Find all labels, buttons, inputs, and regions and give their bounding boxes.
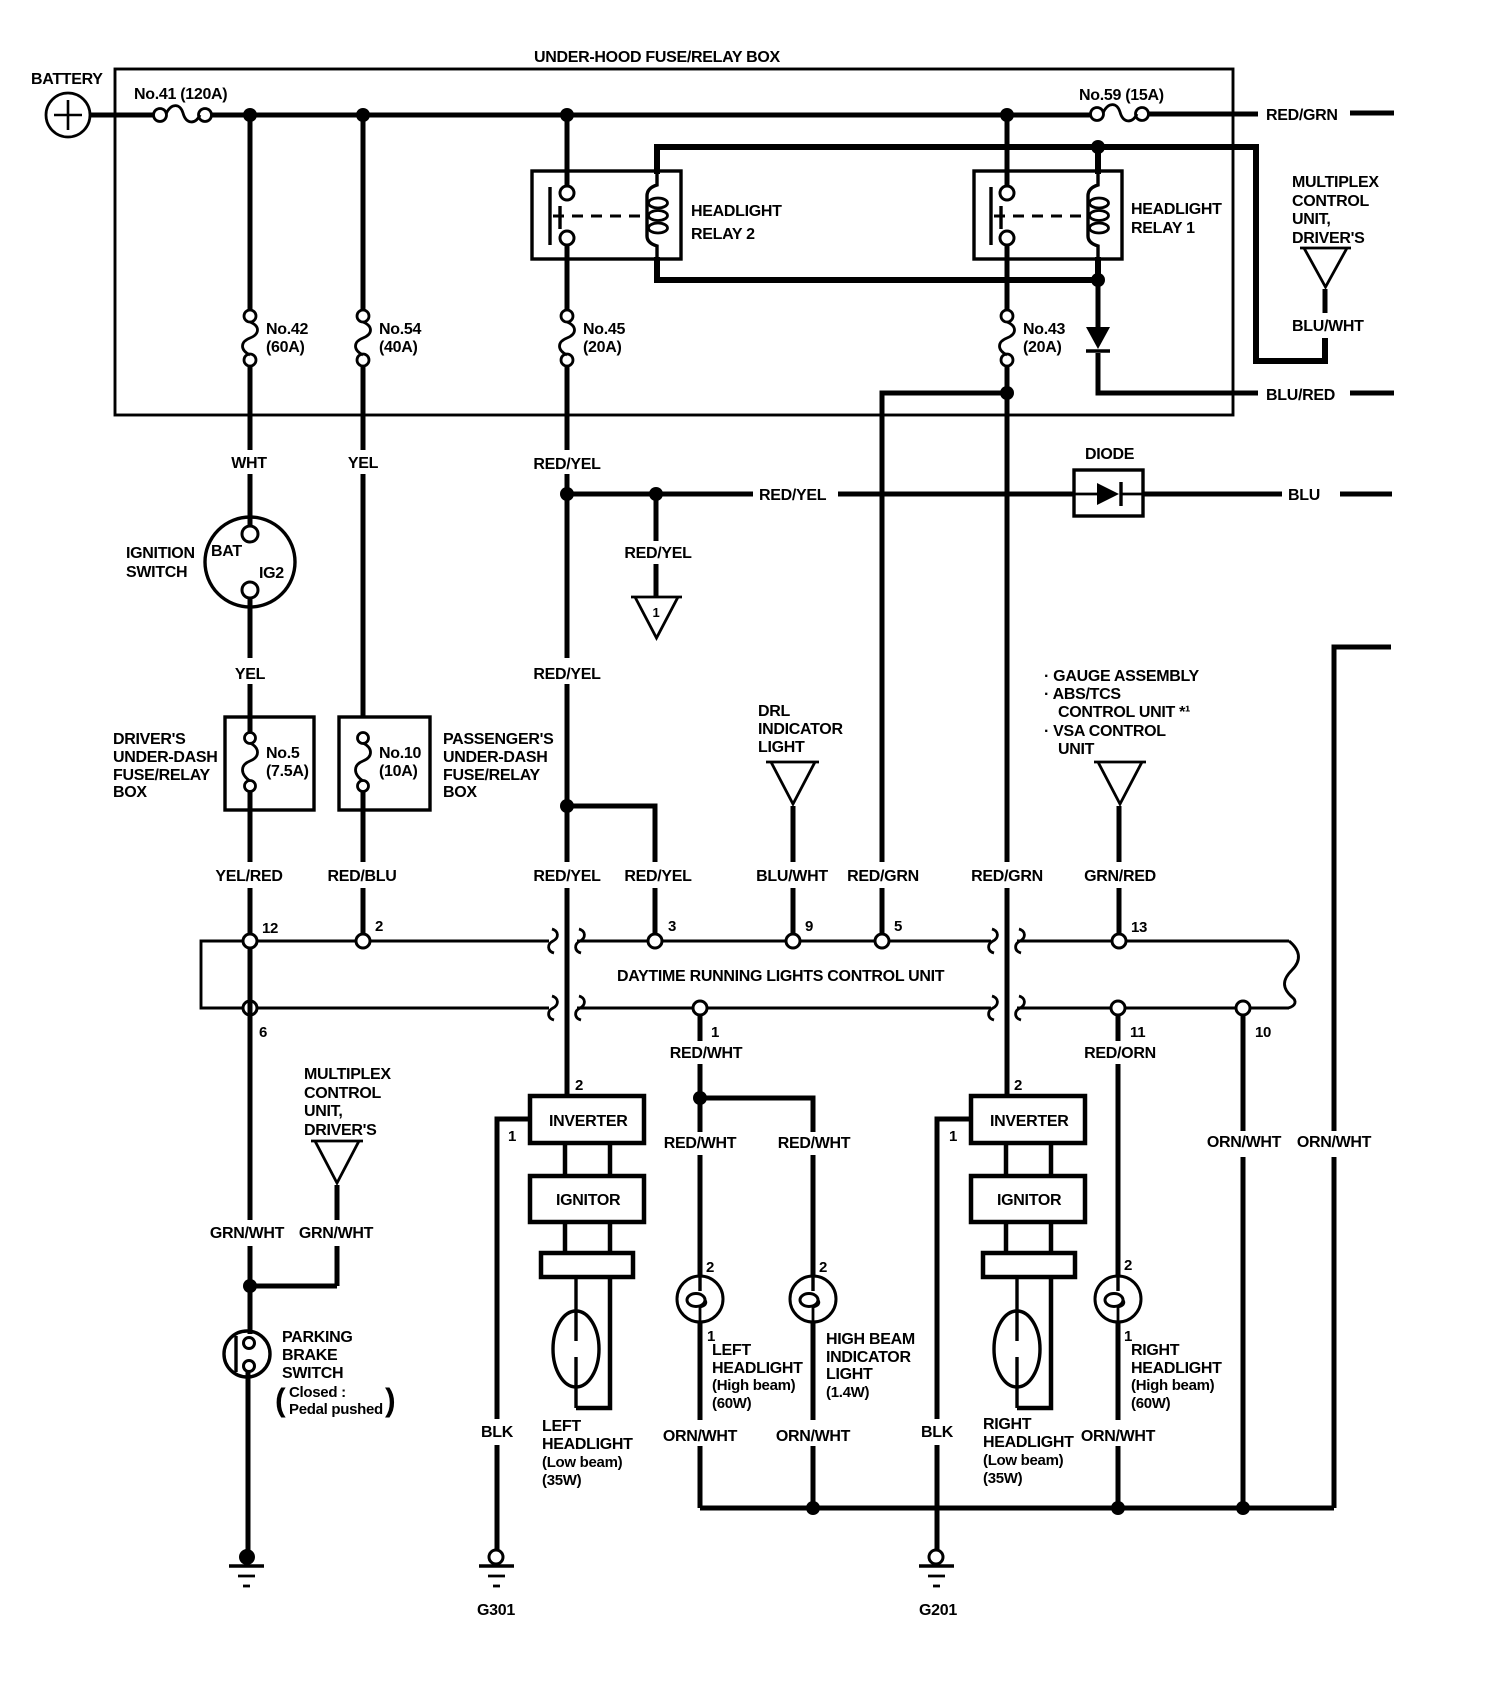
svg-text:(35W): (35W)	[542, 1472, 582, 1489]
svg-text:): )	[385, 1382, 396, 1418]
relay 2 coil	[647, 171, 668, 259]
wire WHT No.42 to ignition switch	[248, 365, 253, 527]
svg-text:YEL: YEL	[235, 666, 266, 683]
svg-text:12: 12	[262, 920, 278, 937]
wire fuse No.59 to RED/GRN	[1148, 112, 1258, 117]
wire junction to relay 1 diode	[1096, 280, 1101, 327]
wire No.43 down through box	[1005, 365, 1010, 862]
fuse No.41 (120A)	[134, 86, 227, 122]
main battery bus wire	[211, 113, 1091, 118]
svg-text:INDICATOR: INDICATOR	[758, 721, 843, 738]
svg-text:YEL/RED: YEL/RED	[215, 868, 282, 885]
wire diode to BLU/RED	[1098, 353, 1258, 393]
node: RED/WHT branch junction	[693, 1091, 707, 1105]
label high beam indicator light	[826, 1331, 915, 1401]
svg-text:No.45: No.45	[583, 321, 625, 338]
node: RED/YEL branch to pin 3	[560, 799, 574, 813]
pin 1	[693, 1001, 707, 1015]
relay 2 contact pin bottom	[560, 231, 574, 245]
break mark top left pair	[549, 929, 585, 953]
wire BLU/RED stub dash	[1350, 391, 1394, 396]
svg-text:(40A): (40A)	[379, 339, 418, 356]
wire branch to RED/GRN pin 5 drop	[882, 393, 1007, 862]
right headlight high beam bulb	[1095, 1257, 1141, 1345]
right headlight low beam bulb	[994, 1277, 1051, 1408]
wire No.42 drop from bus	[248, 115, 253, 311]
svg-text:9: 9	[805, 918, 813, 935]
svg-text:HEADLIGHT: HEADLIGHT	[1131, 201, 1222, 218]
svg-text:RED/WHT: RED/WHT	[664, 1135, 737, 1152]
relay coil bottom bus wire	[657, 257, 1098, 280]
svg-text:SWITCH: SWITCH	[282, 1365, 343, 1382]
svg-text:RED/GRN: RED/GRN	[847, 868, 919, 885]
svg-text:No.59 (15A): No.59 (15A)	[1079, 87, 1164, 104]
label right headlight high beam	[1131, 1342, 1222, 1412]
svg-text:G201: G201	[919, 1602, 957, 1619]
svg-text:2: 2	[375, 918, 383, 935]
wire YEL No.54 to passenger's fuse box	[361, 365, 366, 718]
pin 11	[1111, 1001, 1125, 1015]
bulb socket bar (left)	[541, 1253, 633, 1277]
svg-text:GRN/WHT: GRN/WHT	[299, 1225, 374, 1242]
svg-text:UNIT: UNIT	[1058, 741, 1095, 758]
wire relay 1 coil bottom	[1095, 257, 1101, 280]
fuse No.59 (15A)	[1079, 87, 1164, 121]
svg-text:(High beam): (High beam)	[712, 1377, 796, 1394]
svg-text:BLU/RED: BLU/RED	[1266, 387, 1335, 404]
bulb socket bar (right)	[983, 1253, 1075, 1277]
svg-text:UNDER-DASH: UNDER-DASH	[443, 749, 548, 766]
svg-text:11: 11	[1130, 1024, 1145, 1041]
svg-text:· GAUGE ASSEMBLY: · GAUGE ASSEMBLY	[1044, 668, 1200, 685]
svg-text:DRIVER'S: DRIVER'S	[304, 1122, 377, 1139]
label left headlight high beam	[712, 1342, 803, 1412]
svg-text:BOX: BOX	[113, 784, 147, 801]
svg-text:No.5: No.5	[266, 745, 300, 762]
node: bus to No.54	[356, 108, 370, 122]
svg-text:2: 2	[1014, 1077, 1022, 1094]
svg-text:LIGHT: LIGHT	[758, 739, 805, 756]
svg-text:LIGHT: LIGHT	[826, 1366, 873, 1383]
svg-text:IGNITOR: IGNITOR	[997, 1192, 1062, 1209]
svg-text:1: 1	[508, 1128, 516, 1145]
svg-text:Pedal pushed: Pedal pushed	[289, 1401, 383, 1418]
svg-text:BLK: BLK	[921, 1424, 954, 1441]
svg-text:LEFT: LEFT	[542, 1418, 581, 1435]
svg-text:DAYTIME RUNNING LIGHTS CONTROL: DAYTIME RUNNING LIGHTS CONTROL UNIT	[617, 968, 945, 985]
headlight relay 1 box	[974, 171, 1122, 259]
node: relay 1 coil on top bus	[1091, 140, 1105, 154]
wires inverter to ignitor (left)	[565, 1143, 610, 1176]
wire RED/WHT branch to indicator	[700, 1098, 813, 1132]
svg-text:RED/YEL: RED/YEL	[533, 868, 601, 885]
svg-text:BLK: BLK	[481, 1424, 514, 1441]
relay 2 contact arm	[558, 206, 561, 229]
relay 1 contact pin top	[1000, 186, 1014, 200]
diode (relay 1 branch)	[1086, 327, 1110, 351]
svg-text:RELAY 2: RELAY 2	[691, 226, 755, 243]
svg-text:RED/GRN: RED/GRN	[1266, 107, 1338, 124]
wire parking brake switch to ground	[246, 1371, 251, 1551]
node: bus to headlight relay 1	[1000, 108, 1014, 122]
wire BLU/WHT indicator to pin 9	[791, 806, 796, 935]
svg-text:IGNITION: IGNITION	[126, 545, 195, 562]
wire BLU stub dash	[1340, 492, 1392, 497]
svg-text:CONTROL UNIT *¹: CONTROL UNIT *¹	[1058, 704, 1190, 721]
wire indicator to bus	[811, 1322, 816, 1508]
parking brake switch	[224, 1329, 396, 1418]
svg-text:HEADLIGHT: HEADLIGHT	[691, 203, 782, 220]
svg-text:(10A): (10A)	[379, 763, 418, 780]
under-hood fuse/relay box outline	[115, 69, 1233, 415]
wires inverter to ignitor (right)	[1006, 1143, 1051, 1176]
wire RED/GRN stub dash	[1350, 111, 1394, 116]
relay coil top bus wire	[657, 147, 1325, 361]
relay 2 contact bar	[548, 187, 551, 245]
pin 5	[875, 934, 889, 948]
pin 3	[648, 934, 662, 948]
svg-text:RED/YEL: RED/YEL	[533, 666, 601, 683]
multiplex control unit driver's (top right)	[1292, 174, 1379, 287]
fuse No.45 (20A)	[560, 310, 626, 366]
svg-text:RIGHT: RIGHT	[983, 1416, 1032, 1433]
svg-text:IGNITOR: IGNITOR	[556, 1192, 621, 1209]
svg-text:RELAY 1: RELAY 1	[1131, 220, 1195, 237]
wires ignitor to socket (left)	[565, 1222, 610, 1253]
node: indicator on bus	[806, 1501, 820, 1515]
diode D1 (in-line)	[1074, 446, 1143, 516]
svg-text:INDICATOR: INDICATOR	[826, 1349, 911, 1366]
ground (parking brake)	[229, 1549, 264, 1586]
svg-text:(Low beam): (Low beam)	[542, 1454, 623, 1471]
pin 9	[786, 934, 800, 948]
wire GRN/RED gauge to pin 13	[1117, 806, 1122, 935]
svg-text:BRAKE: BRAKE	[282, 1347, 338, 1364]
svg-text:INVERTER: INVERTER	[990, 1113, 1069, 1130]
svg-text:WHT: WHT	[231, 455, 267, 472]
wire No.54 drop from bus	[361, 115, 366, 311]
daytime running lights control unit box	[201, 941, 1298, 1008]
svg-text:INVERTER: INVERTER	[549, 1113, 628, 1130]
svg-text:FUSE/RELAY: FUSE/RELAY	[443, 767, 541, 784]
relay 2 actuation dashed line	[553, 215, 645, 218]
svg-text:Closed :: Closed :	[289, 1384, 346, 1401]
wire BLK right inverter to G201	[937, 1119, 971, 1551]
svg-text:UNDER-DASH: UNDER-DASH	[113, 749, 218, 766]
svg-text:ORN/WHT: ORN/WHT	[663, 1428, 738, 1445]
wire pin 10 ORN/WHT down	[1241, 1015, 1246, 1508]
label headlight relay 2	[691, 203, 782, 243]
pin 13	[1112, 934, 1126, 948]
ground G201	[919, 1550, 957, 1619]
svg-text:RED/WHT: RED/WHT	[670, 1045, 743, 1062]
wire relay 2 contact to fuse No.45	[565, 245, 570, 311]
node: right high beam on bus	[1111, 1501, 1125, 1515]
wire diode to BLU	[1143, 492, 1282, 497]
svg-text:YEL: YEL	[348, 455, 379, 472]
svg-text:FUSE/RELAY: FUSE/RELAY	[113, 767, 211, 784]
fuse No.43 (20A)	[1000, 310, 1066, 366]
svg-text:DRIVER'S: DRIVER'S	[1292, 230, 1365, 247]
svg-text:RED/WHT: RED/WHT	[778, 1135, 851, 1152]
svg-text:BOX: BOX	[443, 784, 477, 801]
node: No.43 branch junction	[1000, 386, 1014, 400]
wire ORN/WHT from off-page right	[1334, 647, 1391, 1508]
wire GRN/WHT multiplex branch	[250, 1185, 337, 1286]
node: bus to No.42	[243, 108, 257, 122]
svg-text:RIGHT: RIGHT	[1131, 1342, 1180, 1359]
left headlight low beam bulb	[553, 1277, 610, 1408]
svg-text:HEADLIGHT: HEADLIGHT	[983, 1434, 1074, 1451]
svg-text:LEFT: LEFT	[712, 1342, 751, 1359]
svg-text:RED/YEL: RED/YEL	[624, 545, 692, 562]
wire BLU/WHT multiplex to coil bus	[1323, 289, 1328, 313]
relay 1 contact pin bottom	[1000, 231, 1014, 245]
wire YEL/RED No.5 to pin 12	[248, 791, 253, 935]
svg-text:(1.4W): (1.4W)	[826, 1384, 870, 1401]
svg-text:HEADLIGHT: HEADLIGHT	[712, 1360, 803, 1377]
svg-text:(60W): (60W)	[712, 1395, 752, 1412]
svg-text:SWITCH: SWITCH	[126, 564, 187, 581]
svg-text:BAT: BAT	[211, 543, 242, 560]
wire No.45 RED/YEL down	[565, 365, 570, 1097]
wires ignitor to socket (right)	[1006, 1222, 1051, 1253]
bottom ground bus wire	[700, 1506, 1334, 1511]
svg-text:CONTROL: CONTROL	[304, 1085, 382, 1102]
inverter (left)	[530, 1096, 644, 1143]
svg-text:ORN/WHT: ORN/WHT	[1081, 1428, 1156, 1445]
svg-text:No.10: No.10	[379, 745, 421, 762]
wire pin 11 RED/ORN down	[1116, 1015, 1121, 1277]
relay 1 contact bar	[989, 187, 992, 245]
fuse No.42 (60A)	[243, 310, 309, 366]
svg-text:UNIT,: UNIT,	[304, 1103, 343, 1120]
connector arrow 1	[631, 597, 682, 638]
DRL indicator light	[758, 703, 843, 804]
wire battery to fuse No.41	[90, 113, 154, 118]
ignitor (right)	[971, 1176, 1085, 1222]
inverter (right)	[971, 1096, 1085, 1143]
wire left high beam to bus	[698, 1322, 703, 1508]
wire RED/GRN through control unit gap	[1005, 888, 1010, 1097]
svg-text:HIGH BEAM: HIGH BEAM	[826, 1331, 915, 1348]
wire indicator leg down	[811, 1155, 816, 1277]
svg-text:2: 2	[1124, 1257, 1132, 1274]
svg-text:PARKING: PARKING	[282, 1329, 353, 1346]
svg-text:5: 5	[894, 918, 902, 935]
svg-text:No.42: No.42	[266, 321, 308, 338]
svg-text:ORN/WHT: ORN/WHT	[1207, 1134, 1282, 1151]
pin 2	[356, 934, 370, 948]
relay 2 contact pin top	[560, 186, 574, 200]
svg-text:2: 2	[575, 1077, 583, 1094]
label left headlight low beam	[542, 1418, 633, 1489]
node: RED/YEL tap on No.45 wire	[560, 487, 574, 501]
svg-text:UNDER-HOOD FUSE/RELAY BOX: UNDER-HOOD FUSE/RELAY BOX	[534, 49, 780, 66]
svg-text:GRN/WHT: GRN/WHT	[210, 1225, 285, 1242]
svg-text:DIODE: DIODE	[1085, 446, 1135, 463]
svg-text:PASSENGER'S: PASSENGER'S	[443, 731, 554, 748]
pin 10	[1236, 1001, 1250, 1015]
svg-text:BATTERY: BATTERY	[31, 71, 103, 88]
svg-text:13: 13	[1131, 919, 1147, 936]
ignition switch	[126, 517, 295, 607]
relay 1 actuation dashed line	[994, 215, 1086, 218]
svg-text:(High beam): (High beam)	[1131, 1377, 1215, 1394]
svg-text:GRN/RED: GRN/RED	[1084, 868, 1156, 885]
svg-text:(: (	[275, 1382, 286, 1418]
svg-text:RED/GRN: RED/GRN	[971, 868, 1043, 885]
svg-text:HEADLIGHT: HEADLIGHT	[542, 1436, 633, 1453]
break mark bottom left pair	[549, 996, 585, 1020]
svg-text:RED/YEL: RED/YEL	[533, 456, 601, 473]
wire relay 1 coil top to bus	[1095, 147, 1101, 174]
svg-text:DRIVER'S: DRIVER'S	[113, 731, 186, 748]
svg-text:MULTIPLEX: MULTIPLEX	[304, 1066, 391, 1083]
svg-text:10: 10	[1255, 1024, 1271, 1041]
relay 1 coil	[1088, 171, 1109, 259]
svg-text:UNIT,: UNIT,	[1292, 211, 1331, 228]
break mark top right pair	[989, 929, 1025, 953]
svg-text:BLU: BLU	[1288, 487, 1320, 504]
wire RED/YEL to pin 3	[653, 888, 658, 935]
wire bus to relay 1 contact	[1005, 115, 1010, 187]
svg-text:DRL: DRL	[758, 703, 791, 720]
svg-text:(60W): (60W)	[1131, 1395, 1171, 1412]
svg-text:(20A): (20A)	[583, 339, 622, 356]
svg-text:(35W): (35W)	[983, 1470, 1023, 1487]
ignitor (left)	[530, 1176, 644, 1222]
svg-text:6: 6	[259, 1024, 267, 1041]
node: GRN/WHT junction	[243, 1279, 257, 1293]
headlight relay 2 box	[532, 171, 681, 259]
wire RED/GRN to pin 5	[880, 888, 885, 935]
ground G301	[477, 1550, 515, 1619]
svg-text:No.43: No.43	[1023, 321, 1065, 338]
svg-text:· VSA CONTROL: · VSA CONTROL	[1044, 723, 1166, 740]
svg-text:(Low beam): (Low beam)	[983, 1452, 1064, 1469]
svg-text:MULTIPLEX: MULTIPLEX	[1292, 174, 1379, 191]
fuse No.5 (7.5A)	[243, 718, 309, 792]
wire relay 1 contact to fuse No.43	[1005, 245, 1010, 311]
wire bus to relay 2 contact	[565, 115, 570, 187]
svg-text:RED/YEL: RED/YEL	[759, 487, 827, 504]
svg-text:2: 2	[706, 1259, 714, 1276]
svg-text:(20A): (20A)	[1023, 339, 1062, 356]
node: relay 1 coil bottom junction	[1091, 273, 1105, 287]
svg-text:(60A): (60A)	[266, 339, 305, 356]
svg-text:RED/YEL: RED/YEL	[624, 868, 692, 885]
high beam indicator light bulb	[790, 1259, 836, 1322]
node: bus to headlight relay 2	[560, 108, 574, 122]
svg-text:ORN/WHT: ORN/WHT	[1297, 1134, 1372, 1151]
svg-text:G301: G301	[477, 1602, 515, 1619]
wire ignition switch IG2 to No.5	[248, 598, 253, 718]
wire BLK left inverter to G301	[497, 1119, 530, 1551]
wire branch to pin 3	[567, 806, 655, 862]
svg-text:ORN/WHT: ORN/WHT	[776, 1428, 851, 1445]
svg-text:1: 1	[711, 1024, 719, 1041]
svg-text:CONTROL: CONTROL	[1292, 193, 1370, 210]
svg-text:HEADLIGHT: HEADLIGHT	[1131, 1360, 1222, 1377]
wire to connector triangle 1	[654, 564, 659, 597]
fuse No.10 (10A)	[356, 733, 422, 792]
pin 6	[243, 1001, 257, 1015]
passenger's under-dash fuse/relay box	[339, 717, 554, 810]
left headlight high beam bulb	[677, 1259, 723, 1345]
wire RED/BLU No.10 to pin 2	[361, 791, 366, 935]
relay 1 contact arm	[999, 206, 1002, 229]
svg-text:RED/BLU: RED/BLU	[327, 868, 396, 885]
svg-text:· ABS/TCS: · ABS/TCS	[1044, 686, 1121, 703]
svg-text:RED/ORN: RED/ORN	[1084, 1045, 1156, 1062]
svg-text:BLU/WHT: BLU/WHT	[1292, 318, 1364, 335]
pin 12	[243, 934, 257, 948]
svg-text:(7.5A): (7.5A)	[266, 763, 309, 780]
svg-text:2: 2	[819, 1259, 827, 1276]
wire RED/YEL horizontal left segment	[567, 492, 753, 497]
break mark bottom right pair	[989, 996, 1025, 1020]
driver's under-dash fuse/relay box	[113, 717, 314, 810]
wire right high beam to bus	[1116, 1322, 1121, 1508]
svg-text:No.41 (120A): No.41 (120A)	[134, 86, 227, 103]
node: pin 10 wire on bus	[1236, 1501, 1250, 1515]
label right headlight low beam	[983, 1416, 1074, 1487]
wire pin 6 GRN/WHT down	[248, 948, 253, 1334]
svg-text:1: 1	[653, 605, 660, 620]
svg-text:1: 1	[949, 1128, 957, 1145]
svg-text:3: 3	[668, 918, 676, 935]
multiplex control unit driver's (lower)	[304, 1066, 391, 1183]
wire pin 1 RED/WHT down	[698, 1015, 703, 1277]
fuse No.54 (40A)	[356, 310, 422, 366]
label headlight relay 1	[1131, 201, 1222, 237]
svg-text:BLU/WHT: BLU/WHT	[756, 868, 828, 885]
svg-text:IG2: IG2	[259, 565, 284, 582]
gauge assembly / ABS/TCS / VSA control unit	[1044, 668, 1200, 804]
wire RED/YEL horizontal right segment	[838, 492, 1075, 497]
svg-text:No.54: No.54	[379, 321, 421, 338]
node: RED/YEL branch to connector 1	[649, 487, 663, 501]
battery B1	[31, 71, 103, 137]
wire RED/YEL branch down	[654, 494, 659, 541]
